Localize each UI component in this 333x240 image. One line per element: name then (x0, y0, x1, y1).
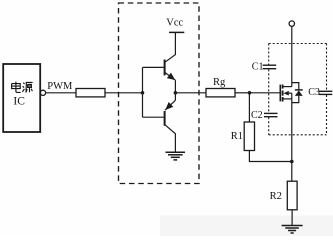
wire R2 to ground (291, 210, 293, 226)
node driver output (174, 91, 178, 95)
wire resistor to driver input (105, 92, 143, 94)
parasitic dashed wiring (right, through C3) (326, 44, 328, 135)
wire R1 bottom to source junction (249, 151, 291, 162)
MOSFET Q3 with body diode (280, 83, 302, 103)
svg-text:PWM: PWM (47, 81, 73, 92)
driver stage dashed box (119, 3, 200, 184)
电 (12, 82, 21, 93)
resistor R1 (244, 122, 254, 151)
terminal PWM (circle on IC output) (40, 90, 45, 95)
svg-text:Rg: Rg (213, 77, 226, 88)
resistor (series, unlabeled) (76, 89, 105, 97)
svg-text:C1: C1 (252, 61, 264, 72)
parasitic dashed wiring (left, through C1/C2) (268, 44, 270, 135)
capacitor C2 (264, 113, 278, 116)
wire drain (291, 26, 293, 87)
transistor Q1 (NPN upper) (143, 32, 176, 92)
wire PWM terminal to series resistor (46, 92, 77, 94)
svg-text:R2: R2 (270, 191, 282, 202)
node gate junction (248, 91, 252, 95)
源 (22, 83, 24, 92)
capacitor C1 (263, 65, 277, 69)
svg-text:Vcc: Vcc (166, 17, 183, 28)
svg-text:C2: C2 (251, 110, 263, 121)
svg-text:C3: C3 (308, 87, 320, 98)
wire gate node down to R1 (248, 93, 250, 122)
wire base bus (142, 67, 144, 117)
resistor R2 (287, 181, 297, 210)
resistor Rg (206, 89, 235, 97)
wire source down to R2 (291, 99, 293, 181)
svg-text:IC: IC (13, 96, 25, 108)
wire gate node to MOSFET gate (250, 92, 280, 94)
wire driver output to Rg (175, 92, 206, 94)
svg-text:R1: R1 (231, 131, 243, 142)
terminal drain (circle) (289, 21, 294, 26)
wire Rg to gate node (235, 92, 250, 94)
label 电源 (12, 82, 33, 93)
node source junction (290, 160, 294, 164)
parasitic dashed wiring (bottom) (269, 134, 327, 136)
transistor Q2 (PNP lower) (143, 93, 176, 152)
node driver input junction (141, 91, 145, 95)
Vcc supply bar (169, 31, 184, 33)
IC box U1 (power supply IC) (3, 64, 40, 132)
ground (driver stage) (166, 152, 186, 160)
capacitor C3 (319, 91, 333, 94)
parasitic dashed wiring (top) (269, 43, 327, 45)
ground (source/R2) (282, 226, 303, 234)
